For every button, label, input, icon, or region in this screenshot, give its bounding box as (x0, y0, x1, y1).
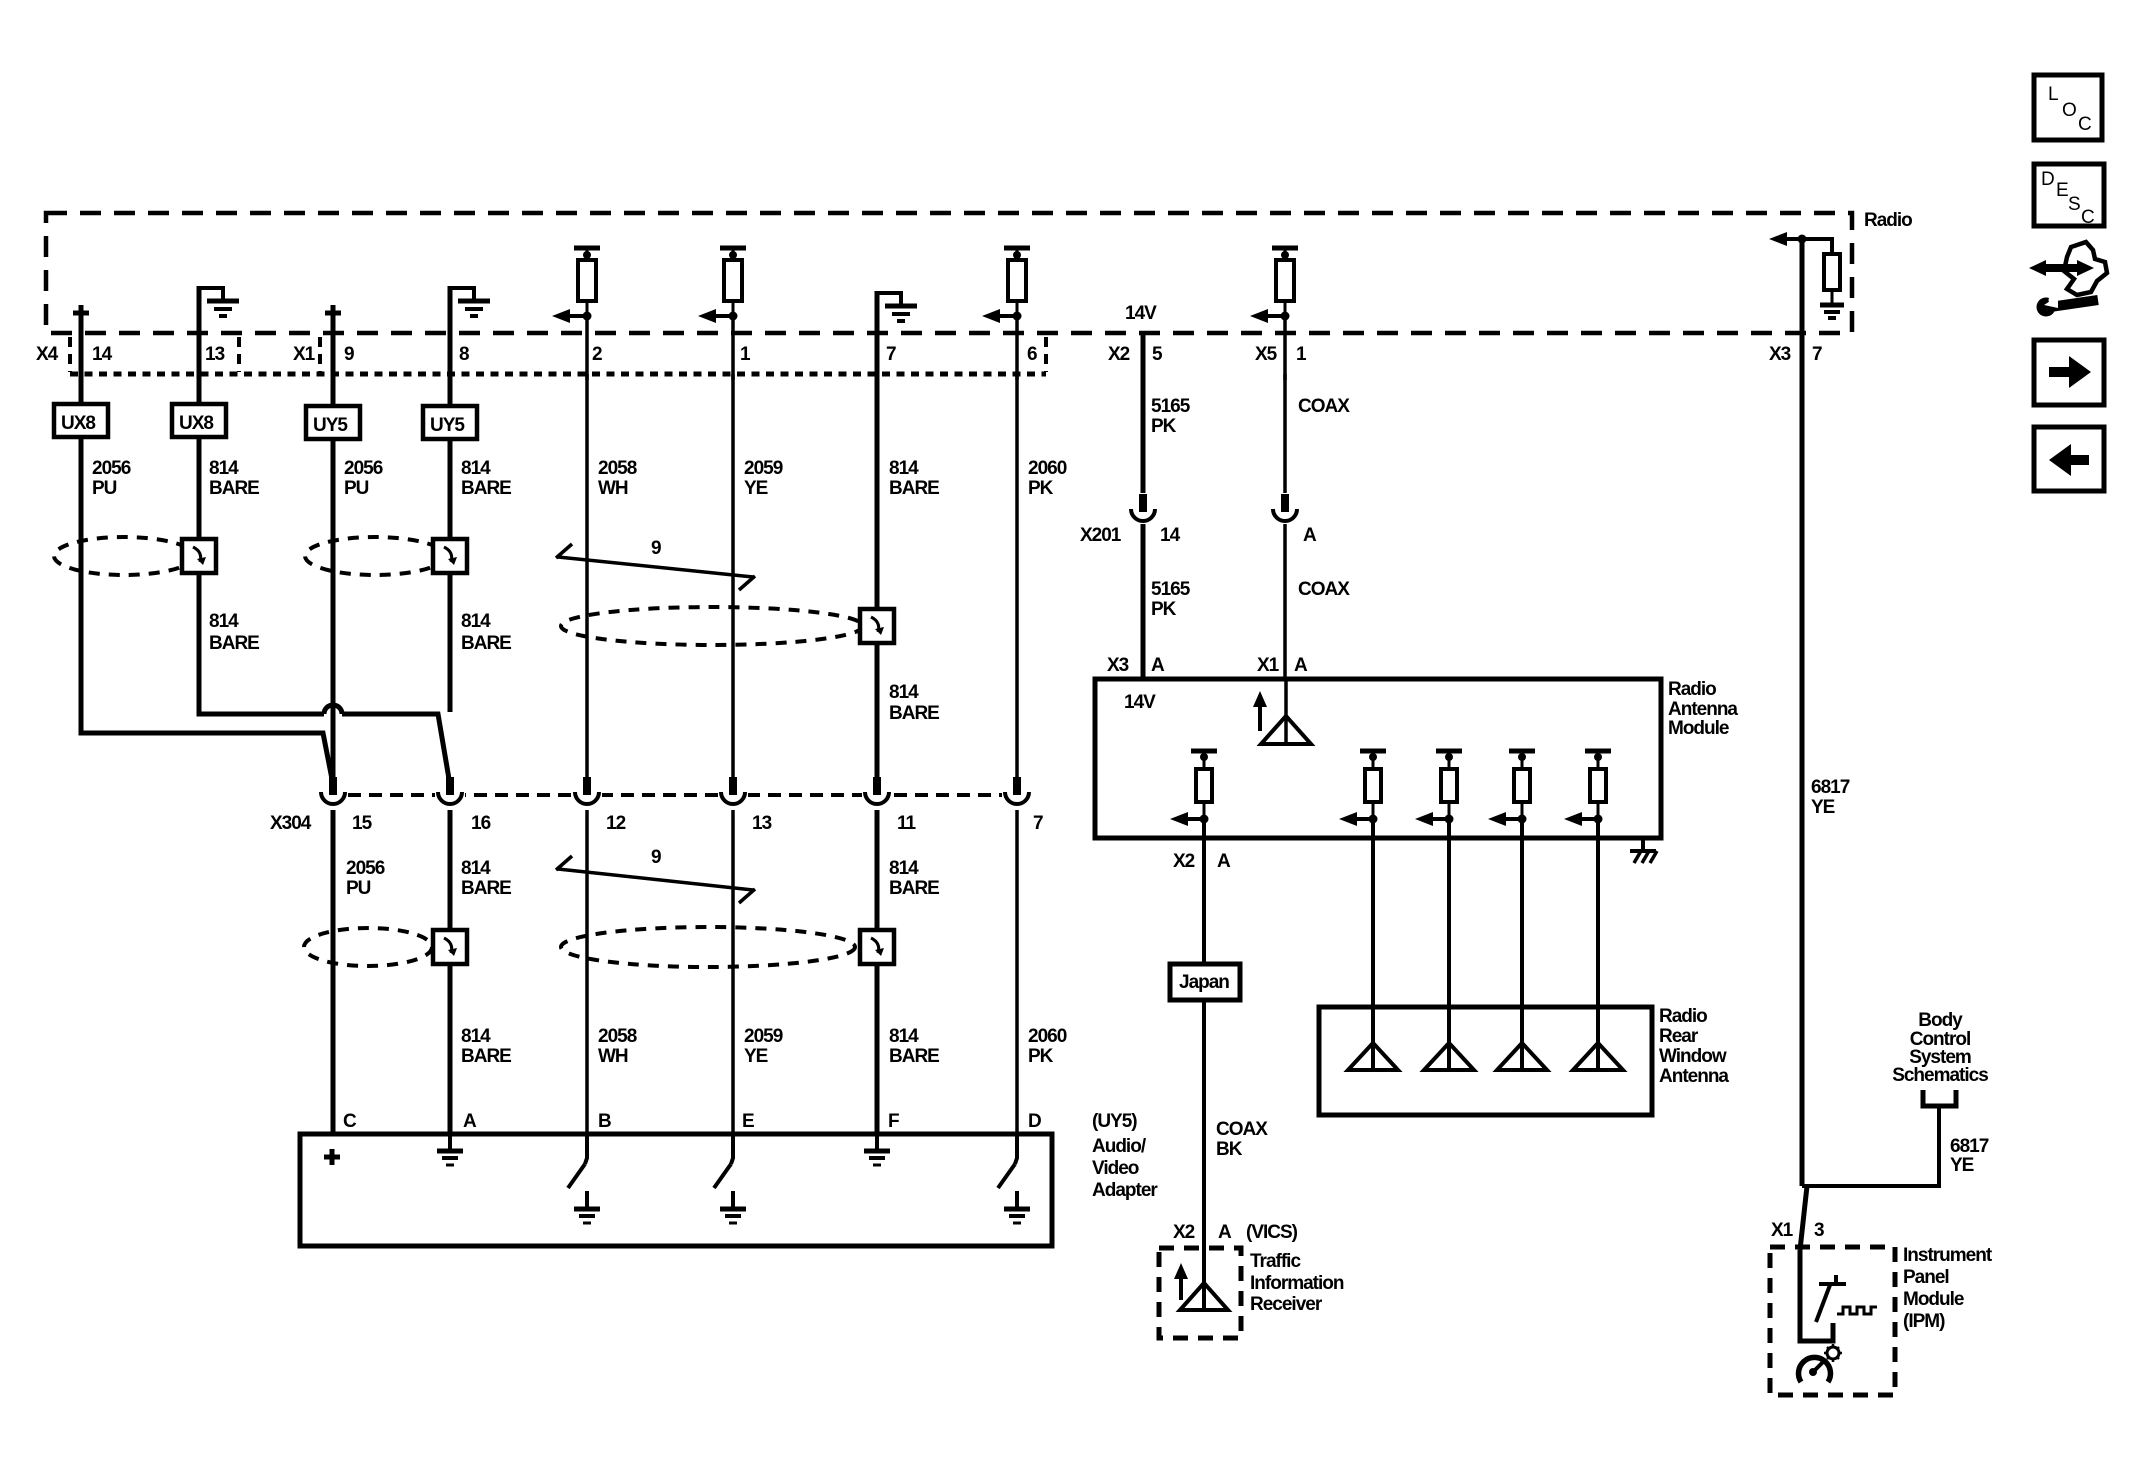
svg-text:A: A (1217, 851, 1231, 872)
svg-text:814: 814 (209, 611, 239, 632)
svg-text:(VICS): (VICS) (1246, 1222, 1298, 1243)
connector inline A (coax) (1270, 494, 1317, 546)
svg-text:814: 814 (889, 1026, 919, 1047)
component Radio Antenna Module (1095, 679, 1738, 838)
resistor (module rear antenna 3) (1488, 751, 1535, 826)
wire 5165 PK (X2-5 to X201-14) (1141, 333, 1146, 493)
component Japan option box (1170, 964, 1240, 1000)
icon back arrow box (2034, 427, 2104, 491)
svg-text:PK: PK (1151, 599, 1177, 620)
wire 5165 PK (X201 to module X3) (1141, 524, 1146, 681)
connector X201 (inline, col 5165) (1080, 494, 1181, 546)
svg-text:814: 814 (461, 458, 491, 479)
svg-text:F: F (888, 1111, 899, 1132)
svg-text:X4: X4 (36, 344, 59, 365)
svg-text:Antenna: Antenna (1659, 1066, 1729, 1087)
svg-text:5165: 5165 (1151, 579, 1191, 600)
svg-text:E: E (2056, 180, 2069, 201)
svg-text:Instrument: Instrument (1903, 1245, 1993, 1266)
square wave symbol (IPM internal) (1837, 1307, 1877, 1314)
wire pin X4-14 (79, 321, 84, 404)
shield ellipse (cols 9-8) (305, 537, 445, 575)
wire pin X1-6 (1015, 316, 1019, 380)
svg-text:YE: YE (744, 1046, 768, 1067)
ground (pin F internal) (864, 1134, 890, 1165)
ground (pin X1-8 internal) (450, 288, 490, 316)
svg-text:1: 1 (1296, 344, 1307, 365)
svg-text:Radio: Radio (1659, 1006, 1707, 1027)
svg-text:X1: X1 (293, 344, 316, 365)
svg-text:2: 2 (592, 344, 602, 365)
switch + ground (pin D internal) (998, 1134, 1030, 1223)
wire 6817 YE (X3-7 down) (1800, 239, 1805, 1186)
svg-text:X3: X3 (1107, 655, 1129, 676)
svg-text:PK: PK (1028, 478, 1054, 499)
antenna trimmer symbol (IPM internal) (1800, 1250, 1846, 1341)
resistor (module rear antenna 2) (1415, 751, 1462, 826)
resistor (module rear antenna 4) (1564, 751, 1611, 826)
svg-text:Schematics: Schematics (1892, 1065, 1988, 1086)
svg-text:BARE: BARE (209, 633, 259, 654)
wire pin X5-1 (1283, 316, 1287, 380)
svg-text:X304: X304 (270, 813, 312, 834)
connector X4 dashed stubs (68, 337, 72, 372)
svg-text:12: 12 (606, 813, 626, 834)
wire pin X4-13 (197, 286, 202, 404)
svg-text:COAX: COAX (1298, 579, 1350, 600)
svg-text:6817: 6817 (1950, 1136, 1989, 1157)
svg-text:6: 6 (1027, 344, 1037, 365)
wire 2058 WH (X1-2 down) (585, 374, 589, 778)
icon wrench with arrows (2029, 242, 2107, 317)
wire COAX (X5-1 to inline A) (1283, 374, 1287, 493)
svg-text:A: A (1294, 655, 1308, 676)
svg-text:5165: 5165 (1151, 396, 1191, 417)
svg-text:PU: PU (92, 478, 117, 499)
wire COAX (inline A to module X1) (1283, 524, 1287, 681)
twisted pair 9 (cols 12-13 lower) (556, 847, 755, 903)
svg-text:A: A (1151, 655, 1165, 676)
svg-text:A: A (1218, 1222, 1232, 1243)
wire 2060 PK (X304-7 down) (1015, 810, 1019, 1134)
svg-text:PU: PU (346, 878, 371, 899)
node Body Control System Schematics reference (1892, 1010, 1988, 1106)
svg-text:YE: YE (1950, 1155, 1974, 1176)
gauge icon (IPM internal) (1798, 1344, 1842, 1382)
svg-text:814: 814 (461, 1026, 491, 1047)
component Radio (dashed outline) (46, 210, 1912, 333)
svg-text:16: 16 (471, 813, 491, 834)
shield ellipse (cols 14-13) (54, 537, 194, 575)
svg-text:BARE: BARE (889, 703, 939, 724)
svg-text:D: D (1028, 1111, 1041, 1132)
wire 6817 YE (BCS branch) (1802, 1106, 1939, 1186)
svg-text:BARE: BARE (889, 1046, 939, 1067)
svg-text:2059: 2059 (744, 458, 783, 479)
svg-text:Window: Window (1659, 1046, 1727, 1067)
svg-text:COAX: COAX (1216, 1119, 1268, 1140)
wire to IPM X1-3 (1800, 1186, 1807, 1250)
wire 2056 PU (X4-14 to X304-15) (81, 437, 332, 779)
shield ellipse (cols 12-11 lower) (561, 927, 855, 967)
antenna element 2 (1424, 1007, 1474, 1070)
component Traffic Information Receiver (dashed) (1159, 1248, 1344, 1338)
svg-text:6817: 6817 (1811, 777, 1850, 798)
svg-text:13: 13 (205, 344, 225, 365)
svg-text:B: B (598, 1111, 611, 1132)
svg-text:814: 814 (889, 858, 919, 879)
svg-text:BK: BK (1216, 1139, 1243, 1160)
wire 814 BARE (X304-16 down) (448, 810, 453, 1134)
svg-text:BARE: BARE (461, 478, 511, 499)
svg-text:PK: PK (1151, 416, 1177, 437)
svg-text:COAX: COAX (1298, 396, 1350, 417)
svg-text:5: 5 (1152, 344, 1163, 365)
option box UX8 (col 14) (54, 404, 108, 437)
svg-text:13: 13 (752, 813, 772, 834)
wire COAX BK (Japan to VICS receiver) (1202, 1000, 1206, 1310)
svg-text:814: 814 (461, 611, 491, 632)
wire pin X1-9 (331, 321, 336, 406)
chassis ground (module) (1630, 838, 1657, 863)
wire 2056 PU (X1-9 to X304-15) (331, 439, 336, 778)
wire pin X1-2 (585, 316, 589, 380)
antenna element 1 (1348, 1007, 1398, 1070)
antenna element 3 (1497, 1007, 1547, 1070)
wire pin X1-7 (875, 291, 880, 380)
svg-text:BARE: BARE (209, 478, 259, 499)
svg-text:A: A (1303, 525, 1317, 546)
svg-text:2056: 2056 (346, 858, 385, 879)
svg-text:11: 11 (897, 813, 917, 834)
svg-text:BARE: BARE (889, 878, 939, 899)
resistor (module rear antenna 1) (1339, 751, 1386, 826)
wire pin X1-8 (448, 286, 453, 406)
svg-text:814: 814 (889, 458, 919, 479)
svg-text:BARE: BARE (461, 633, 511, 654)
resistor (pin X1-2 internal) (552, 248, 600, 323)
svg-text:2060: 2060 (1028, 458, 1067, 479)
svg-text:YE: YE (1811, 797, 1835, 818)
svg-text:8: 8 (459, 344, 469, 365)
svg-text:Video: Video (1092, 1158, 1139, 1179)
svg-text:2056: 2056 (344, 458, 383, 479)
svg-text:7: 7 (886, 344, 896, 365)
svg-text:Traffic: Traffic (1250, 1251, 1301, 1272)
wire 814 BARE (X4-13 to X304-16) (199, 437, 324, 714)
resistor (module out X2-A) (1170, 751, 1217, 826)
ground (pin X4-13 internal) (199, 288, 239, 316)
node + (pin C internal) (324, 1149, 340, 1165)
svg-text:7: 7 (1033, 813, 1043, 834)
antenna symbol (module X1-A internal) (1253, 679, 1311, 744)
resistor (pin X1-6 internal) (982, 248, 1030, 323)
svg-text:(IPM): (IPM) (1903, 1311, 1945, 1332)
wire module to rear antenna 3 (1520, 819, 1524, 1007)
node + (pin X4-14) (73, 305, 89, 321)
svg-text:Receiver: Receiver (1250, 1294, 1323, 1315)
svg-text:WH: WH (598, 478, 628, 499)
twisted pair 9 (cols 2-1 upper) (556, 538, 755, 590)
svg-text:Information: Information (1250, 1273, 1344, 1294)
svg-text:2058: 2058 (598, 1026, 637, 1047)
wire 814 BARE (X1-7 down) (875, 374, 880, 778)
svg-text:WH: WH (598, 1046, 628, 1067)
svg-text:X3: X3 (1769, 344, 1791, 365)
svg-text:BARE: BARE (461, 1046, 511, 1067)
svg-text:14: 14 (1160, 525, 1181, 546)
shield ellipse (cols 2-7 upper) (561, 607, 863, 645)
option box UY5 (col 9) (306, 406, 360, 439)
svg-text:14: 14 (92, 344, 113, 365)
svg-text:D: D (2041, 169, 2055, 190)
svg-text:L: L (2048, 84, 2059, 105)
svg-text:O: O (2062, 100, 2077, 121)
icon LOC box (2034, 75, 2102, 140)
svg-text:Radio: Radio (1668, 679, 1716, 700)
svg-text:1: 1 (740, 344, 751, 365)
switch + ground (pin E internal) (714, 1134, 746, 1223)
svg-text:UY5: UY5 (313, 415, 348, 436)
wire module to rear antenna 4 (1596, 819, 1600, 1007)
connector X1 dashed stubs (318, 337, 322, 372)
svg-text:BARE: BARE (889, 478, 939, 499)
svg-text:Audio/: Audio/ (1092, 1136, 1147, 1157)
shield drain box (col 11 lower) (860, 930, 894, 964)
svg-text:C: C (2081, 207, 2095, 228)
wire module to rear antenna 1 (1371, 819, 1375, 1007)
resistor (pin X1-1 internal) (698, 248, 746, 323)
svg-text:15: 15 (352, 813, 373, 834)
svg-text:PK: PK (1028, 1046, 1054, 1067)
svg-text:2058: 2058 (598, 458, 637, 479)
svg-text:14V: 14V (1125, 303, 1157, 324)
svg-text:3: 3 (1814, 1220, 1824, 1241)
resistor (pin X5-1 internal) (1250, 248, 1298, 323)
icon forward arrow box (2034, 340, 2104, 405)
svg-text:UY5: UY5 (430, 415, 465, 436)
svg-text:S: S (2068, 194, 2081, 215)
svg-text:C: C (2078, 114, 2092, 135)
svg-text:7: 7 (1812, 344, 1822, 365)
connector X304 row (270, 777, 1043, 834)
svg-text:814: 814 (889, 682, 919, 703)
svg-text:Japan: Japan (1179, 972, 1229, 993)
component Audio/Video Adapter (300, 1134, 1158, 1246)
wire 2056 PU (X304-15 down) (331, 810, 336, 1134)
svg-text:814: 814 (461, 858, 491, 879)
wire pin X1-1 (731, 316, 735, 380)
svg-text:X2: X2 (1173, 851, 1195, 872)
wire 2059 YE (X1-1 down) (731, 374, 735, 778)
svg-text:9: 9 (651, 538, 661, 559)
ground (pin A internal) (437, 1134, 463, 1165)
svg-text:9: 9 (344, 344, 354, 365)
wire module X2-A to Japan box (1202, 819, 1206, 964)
shield drain box (col 16 lower) (433, 930, 467, 964)
shield drain box (col 13) (182, 539, 216, 573)
svg-text:Module: Module (1668, 718, 1729, 739)
antenna element 4 (1573, 1007, 1623, 1070)
switch + ground (pin B internal) (568, 1134, 600, 1223)
connector strip dotted line (70, 372, 1046, 377)
svg-text:BARE: BARE (461, 878, 511, 899)
svg-text:A: A (463, 1111, 477, 1132)
svg-text:814: 814 (209, 458, 239, 479)
svg-text:X1: X1 (1771, 1220, 1794, 1241)
svg-text:Module: Module (1903, 1289, 1964, 1310)
svg-text:Adapter: Adapter (1092, 1180, 1158, 1201)
svg-text:C: C (343, 1111, 357, 1132)
svg-text:X5: X5 (1255, 344, 1278, 365)
wire 2060 PK (X1-6 down) (1015, 374, 1019, 778)
wire module to rear antenna 2 (1447, 819, 1451, 1007)
svg-text:Body: Body (1918, 1010, 1963, 1031)
svg-text:UX8: UX8 (179, 413, 213, 434)
svg-text:UX8: UX8 (61, 413, 95, 434)
svg-text:X2: X2 (1108, 344, 1130, 365)
svg-text:X201: X201 (1080, 525, 1122, 546)
svg-text:E: E (742, 1111, 754, 1132)
option box UY5 (col 8) (423, 406, 477, 439)
svg-text:Panel: Panel (1903, 1267, 1949, 1288)
node + (pin X1-9) (325, 305, 341, 321)
svg-text:(UY5): (UY5) (1092, 1111, 1137, 1132)
wire 2059 YE (X304-13 down) (731, 810, 735, 1134)
ground (pin X1-7 internal) (877, 293, 917, 321)
component Instrument Panel Module (dashed) (1770, 1245, 1993, 1395)
svg-text:9: 9 (651, 847, 661, 868)
icon DESC box (2034, 164, 2104, 228)
svg-text:2056: 2056 (92, 458, 131, 479)
svg-text:Rear: Rear (1659, 1026, 1699, 1047)
option box UX8 (col 13) (172, 404, 226, 437)
svg-text:YE: YE (744, 478, 768, 499)
wire 814 BARE (X1-8 down) (448, 439, 453, 712)
wire 814 BARE (X304-11 down) (875, 810, 880, 1134)
resistor + ground (pin X3-7 internal) (1769, 232, 1844, 318)
svg-text:PU: PU (344, 478, 369, 499)
component Radio Rear Window Antenna (1319, 1006, 1729, 1115)
svg-text:X2: X2 (1173, 1222, 1195, 1243)
antenna symbol (VICS internal) (1174, 1263, 1228, 1310)
wire 2058 WH (X304-12 down) (585, 810, 589, 1134)
svg-text:2059: 2059 (744, 1026, 783, 1047)
shield drain box (col 8) (433, 539, 467, 573)
svg-text:14V: 14V (1124, 692, 1156, 713)
svg-text:2060: 2060 (1028, 1026, 1067, 1047)
svg-text:Radio: Radio (1864, 210, 1912, 231)
svg-text:X1: X1 (1257, 655, 1280, 676)
shield ellipse (cols 15-16 lower) (304, 928, 432, 966)
shield drain box (col 7 upper) (860, 609, 894, 643)
svg-text:Antenna: Antenna (1668, 699, 1738, 720)
